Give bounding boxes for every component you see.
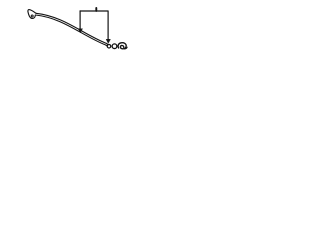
leader horizontal line — [80, 10, 108, 12]
leader left vertical — [79, 11, 81, 29]
rod bottom edge — [35, 15, 107, 46]
coil spiral outline — [118, 43, 126, 49]
left eyelet hole — [31, 15, 33, 17]
leader right vertical — [107, 11, 109, 40]
coil tail — [125, 47, 128, 49]
rod top edge — [36, 13, 108, 44]
arrowhead right — [106, 39, 110, 43]
arrowhead left — [78, 29, 82, 33]
label numeral 1 — [95, 8, 97, 11]
rod left tip curl — [28, 10, 36, 19]
coil ring 2 — [112, 44, 117, 49]
coil ring 1 — [107, 44, 111, 48]
